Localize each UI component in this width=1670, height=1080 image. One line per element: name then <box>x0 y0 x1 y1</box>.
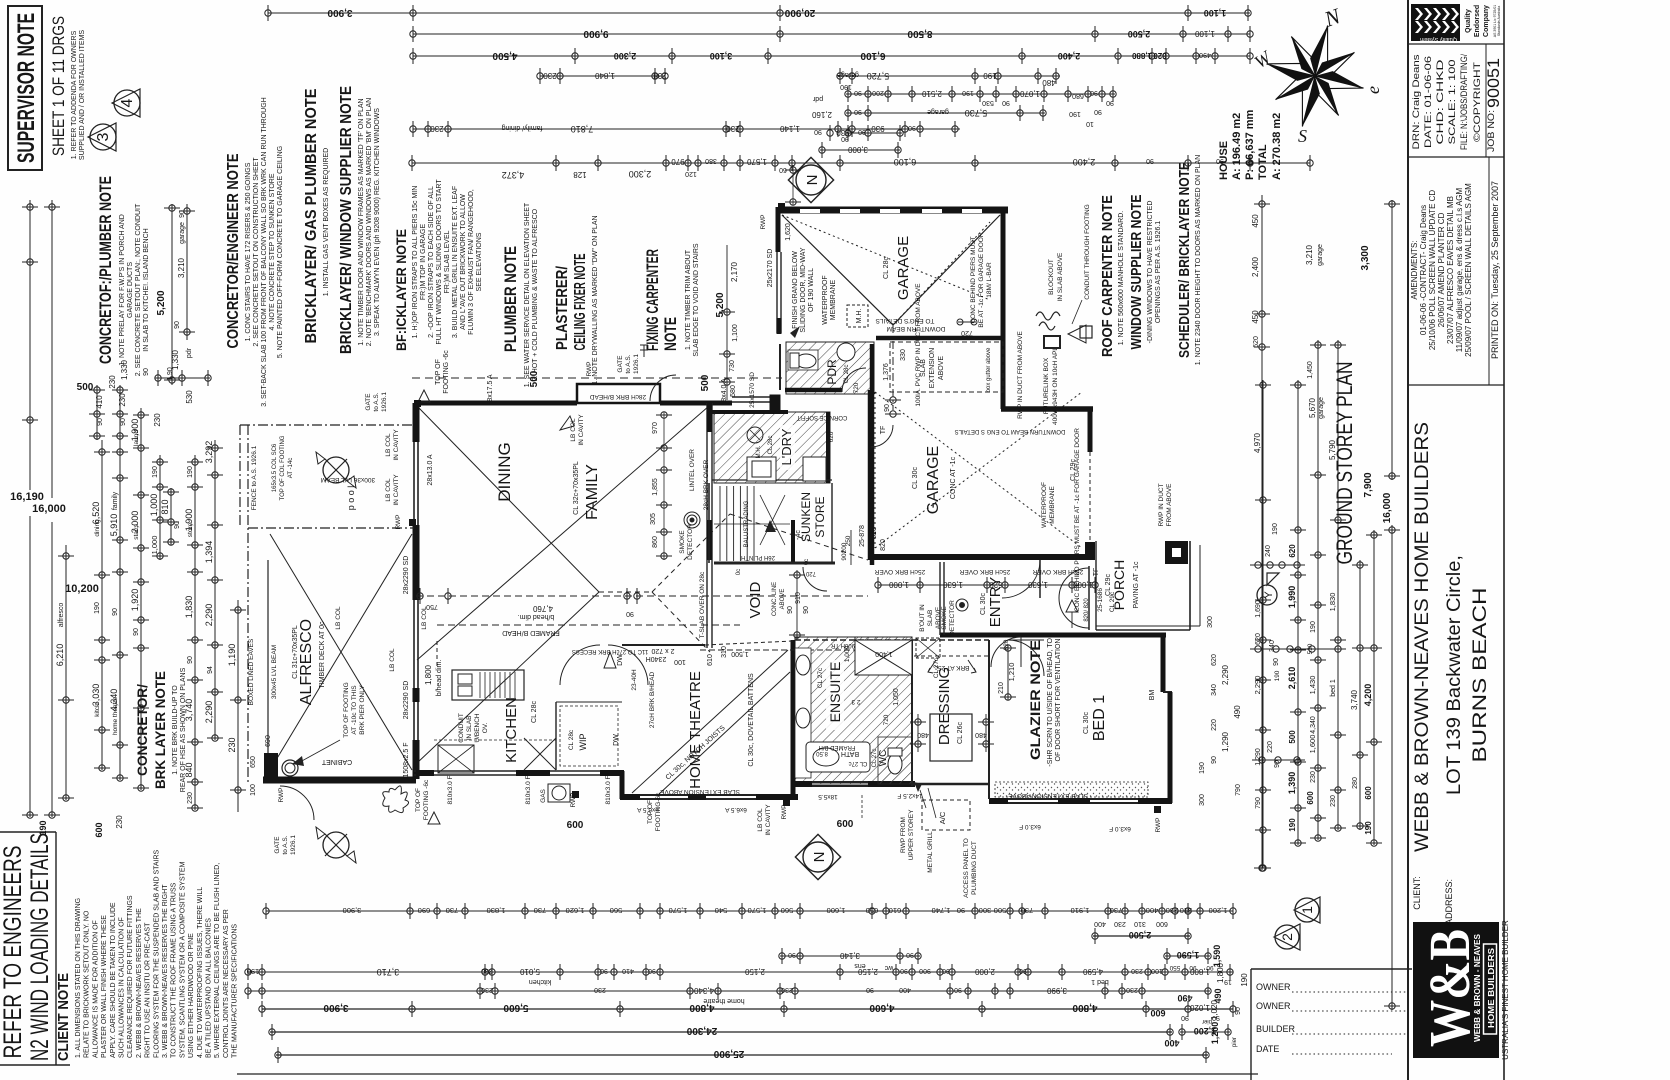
svg-text:-4c: -4c <box>795 530 802 540</box>
svg-text:490: 490 <box>1199 51 1211 58</box>
svg-text:5,670: 5,670 <box>1308 397 1317 418</box>
label: kitchen <box>458 697 538 763</box>
wall: bed1 bottom with windows <box>989 799 1172 803</box>
svg-text:27cH BRK B/HEAD: 27cH BRK B/HEAD <box>649 672 656 729</box>
glazier note pointer dims <box>1000 645 1016 700</box>
svg-text:90: 90 <box>1106 99 1114 106</box>
svg-text:28cH BRK OVER: 28cH BRK OVER <box>703 459 710 510</box>
svg-text:1. H:)OP IRON STRAPS TO ALL PI: 1. H:)OP IRON STRAPS TO ALL PIERS 15c MI… <box>412 186 419 339</box>
svg-text:RWP: RWP <box>781 804 788 819</box>
svg-text:190: 190 <box>1272 523 1279 535</box>
bottom border line <box>237 1073 1258 1075</box>
svg-text:410: 410 <box>95 395 104 409</box>
svg-text:SEE ELEVATIONS: SEE ELEVATIONS <box>476 232 483 291</box>
svg-text:SLAB EXTENSION ABOVE: SLAB EXTENSION ABOVE <box>1007 792 1087 799</box>
svg-text:DETECTOR: DETECTOR <box>949 600 956 636</box>
svg-text:910: 910 <box>795 592 802 604</box>
svg-text:5,730: 5,730 <box>965 108 988 118</box>
svg-text:1,800: 1,800 <box>1189 967 1210 976</box>
note: REFER TO ENGINEERS N2 WIND LOADING DETAILS <box>0 832 70 1065</box>
svg-text:90: 90 <box>97 418 104 426</box>
svg-text:330: 330 <box>900 349 907 361</box>
note: CONCRETOR/BRK LAYER <box>134 667 187 792</box>
svg-text:TO ENG'S DETAILS: TO ENG'S DETAILS <box>875 317 934 324</box>
svg-text:530: 530 <box>185 390 194 404</box>
svg-text:7,810: 7,810 <box>571 124 594 134</box>
label: garage <box>912 446 957 514</box>
svg-text:580: 580 <box>730 385 737 397</box>
svg-text:HOME BUILDERS: HOME BUILDERS <box>1486 948 1496 1028</box>
svg-text:28x17.5 A: 28x17.5 A <box>487 374 494 405</box>
svg-text:LB COL: LB COL <box>757 808 764 832</box>
svg-text:RWP: RWP <box>278 787 285 802</box>
svg-text:2. SEE CONCRETE SETOUT PLAN:,: 2. SEE CONCRETE SETOUT PLAN:, NOTE CONDU… <box>135 203 142 376</box>
svg-text:Quality System: Quality System <box>1420 36 1457 42</box>
svg-text:500: 500 <box>700 374 711 391</box>
note: ROOF CARPENTER <box>1099 195 1125 357</box>
svg-text:1,830: 1,830 <box>1328 593 1337 612</box>
symbol: revision diamond 2 <box>1274 924 1300 950</box>
right dim col C (x1298 bold) <box>1287 380 1306 846</box>
svg-text:family: family <box>112 491 119 510</box>
svg-text:4,800: 4,800 <box>1072 1002 1097 1013</box>
svg-text:2. WEBB & BROWN-NEAVES RESERVE: 2. WEBB & BROWN-NEAVES RESERVES THE <box>136 908 143 1058</box>
svg-text:340: 340 <box>1211 684 1218 696</box>
svg-text:16,190: 16,190 <box>10 491 44 503</box>
svg-text:810x3.0 F: 810x3.0 F <box>525 776 532 805</box>
svg-text:OF DOOR SHORT FOR VENTILATION: OF DOOR SHORT FOR VENTILATION <box>1055 639 1062 762</box>
svg-text:SLAB: SLAB <box>927 610 934 627</box>
svg-text:10: 10 <box>1086 120 1094 127</box>
svg-text:500: 500 <box>529 370 540 387</box>
svg-text:720: 720 <box>883 714 890 725</box>
svg-text:PRINTED ON: Tuesday, 25 Septe: PRINTED ON: Tuesday, 25 September 2007 <box>1490 181 1500 359</box>
svg-text:305: 305 <box>650 513 657 525</box>
svg-text:90: 90 <box>174 521 181 529</box>
svg-text:TOP OF FOOTING: TOP OF FOOTING <box>343 682 350 737</box>
svg-text:RWP: RWP <box>760 214 767 229</box>
svg-text:1. NOTE TIMBER DOOR AND WINDOW: 1. NOTE TIMBER DOOR AND WINDOW FRAMES AS… <box>358 98 365 345</box>
svg-text:1,000: 1,000 <box>888 580 909 589</box>
svg-text:5,600: 5,600 <box>503 1002 528 1013</box>
svg-text:4,340: 4,340 <box>1310 716 1317 734</box>
svg-text:23-40H: 23-40H <box>631 669 638 691</box>
svg-text:24,300: 24,300 <box>686 1025 717 1036</box>
svg-text:790: 790 <box>1255 797 1262 809</box>
svg-text:94: 94 <box>207 666 214 674</box>
left col 141 <box>130 408 149 791</box>
note: CLIENT NOTE <box>55 849 239 1061</box>
svg-text:PAVING AT -1c: PAVING AT -1c <box>1133 561 1140 608</box>
title block: client address <box>1412 422 1491 925</box>
svg-text:store: store <box>187 522 194 537</box>
svg-text:210: 210 <box>998 682 1005 694</box>
svg-text:M.H.: M.H. <box>856 309 863 324</box>
svg-text:540: 540 <box>715 906 728 915</box>
svg-text:690: 690 <box>265 735 272 747</box>
svg-text:1,570: 1,570 <box>669 906 688 915</box>
svg-text:240: 240 <box>1265 545 1272 557</box>
label: porch <box>1105 560 1140 611</box>
svg-text:pier: pier <box>1232 1037 1238 1047</box>
wall: kitchen step down to home theatre <box>620 771 625 799</box>
svg-text:CONC AT -1c: CONC AT -1c <box>950 456 957 499</box>
svg-text:790: 790 <box>1235 784 1242 796</box>
svg-text:CL 26c: CL 26c <box>957 722 964 744</box>
svg-text:1,855: 1,855 <box>652 478 659 496</box>
svg-text:1,90: 1,90 <box>167 367 174 381</box>
wall: garage top block <box>777 207 1008 409</box>
diagonal lines alfresco <box>270 534 412 770</box>
rwp + misc left <box>278 776 612 824</box>
svg-text:410: 410 <box>622 967 634 974</box>
svg-text:USING EITHER HARDWOOD OR PINE: USING EITHER HARDWOOD OR PINE <box>188 933 195 1058</box>
svg-text:HOME THEATRE: HOME THEATRE <box>687 671 704 789</box>
svg-text:128: 128 <box>573 170 587 179</box>
kitchen bench dashed + oven <box>434 740 556 773</box>
svg-text:DW: DW <box>617 654 624 666</box>
svg-text:190: 190 <box>94 602 101 614</box>
svg-text:1926.1: 1926.1 <box>381 392 388 412</box>
diagonal dotted lines main garage <box>875 392 1082 548</box>
svg-text:CL 27c: CL 27c <box>817 667 824 688</box>
fixture: laundry trough/bench <box>747 457 826 481</box>
svg-text:690: 690 <box>418 906 431 915</box>
svg-text:810x3.0 F: 810x3.0 F <box>605 776 612 805</box>
svg-text:220: 220 <box>1211 719 1218 731</box>
top dim row 2 <box>410 26 1253 42</box>
svg-text:1,020: 1,020 <box>1210 999 1219 1020</box>
bottom dim row C <box>245 983 1211 1004</box>
svg-text:FR:)M TOP IN GARAGE: FR:)M TOP IN GARAGE <box>420 224 427 301</box>
svg-text:SYSTEM, SCANTLING SYSTEM OR A: SYSTEM, SCANTLING SYSTEM OR A COMPOSITE … <box>179 861 186 1058</box>
kitchen wip pantry <box>524 702 622 770</box>
svg-text:26H PLINTH: 26H PLINTH <box>741 554 775 560</box>
alfresco col labels <box>272 435 342 629</box>
svg-text:190: 190 <box>1199 762 1206 774</box>
svg-text:1,190: 1,190 <box>227 644 237 667</box>
svg-text:©COPYRIGHT: ©COPYRIGHT <box>1472 61 1482 142</box>
svg-text:190: 190 <box>983 71 997 80</box>
svg-text:dining: dining <box>94 519 101 537</box>
svg-text:5,720: 5,720 <box>867 71 890 81</box>
svg-text:BUILDER: BUILDER <box>1256 1024 1296 1034</box>
svg-text:28x13.0 A: 28x13.0 A <box>427 454 434 485</box>
svg-text:16,000: 16,000 <box>32 503 66 515</box>
svg-text:90: 90 <box>803 606 810 614</box>
svg-text:CL 27c: CL 27c <box>849 760 868 766</box>
svg-text:190: 190 <box>247 967 260 976</box>
svg-text:100: 100 <box>1151 967 1163 974</box>
label: ensuite <box>817 660 844 730</box>
wall: family/void divider <box>707 403 712 648</box>
svg-text:CL 30c: CL 30c <box>912 467 919 489</box>
svg-text:720: 720 <box>805 570 816 576</box>
svg-text:CABINET: CABINET <box>321 758 352 765</box>
svg-text:1,200: 1,200 <box>1210 1022 1220 1045</box>
svg-text:M.H.: M.H. <box>756 445 762 458</box>
svg-text:garage: garage <box>179 222 186 244</box>
svg-text:190: 190 <box>962 89 974 96</box>
svg-text:230: 230 <box>115 815 124 829</box>
svg-text:2. HOT + COLD PLUMBING & WASTE: 2. HOT + COLD PLUMBING & WASTE TO ALFRES… <box>532 208 539 381</box>
svg-text:CONC. LINE: CONC. LINE <box>772 582 778 616</box>
wall: dining left (west) with windows <box>414 403 418 779</box>
svg-text:AMENDMENTS:: AMENDMENTS: <box>1410 240 1419 299</box>
svg-text:5. NOTE PAINTED OFF-FORM CONCR: 5. NOTE PAINTED OFF-FORM CONCRETE TO GAR… <box>277 146 284 358</box>
svg-text:650: 650 <box>866 906 879 915</box>
svg-text:14x2.5 F: 14x2.5 F <box>897 792 922 799</box>
svg-text:100: 100 <box>674 658 686 665</box>
svg-text:L'DRY: L'DRY <box>779 428 794 465</box>
entry dim row <box>875 577 1098 593</box>
svg-text:garage: garage <box>927 108 949 115</box>
top dim row 7 <box>409 155 1313 180</box>
svg-text:2,160: 2,160 <box>811 110 832 119</box>
svg-text:2,300: 2,300 <box>614 51 637 61</box>
svg-text:23/07/07 ALFRESCO EAVES DETA: 23/07/07 ALFRESCO EAVES DETAIL MB <box>1446 196 1455 344</box>
svg-text:90: 90 <box>1235 1007 1242 1015</box>
svg-text:1,000: 1,000 <box>150 536 159 555</box>
svg-text:1,100: 1,100 <box>732 324 739 342</box>
svg-text:RWP: RWP <box>1155 817 1162 832</box>
plumber note dims 5200/3210 <box>156 204 195 385</box>
svg-text:pdr: pdr <box>812 95 823 102</box>
rwp markers <box>409 203 1161 813</box>
top dim row 3 <box>410 48 1253 64</box>
title block: amendments <box>1410 181 1500 359</box>
left dim col 16190 lower <box>22 516 38 818</box>
svg-text:190: 190 <box>1288 818 1297 832</box>
svg-text:860: 860 <box>652 536 659 548</box>
top dim row 5 <box>811 86 1116 141</box>
svg-text:310: 310 <box>1180 906 1193 915</box>
svg-text:CL 30c: CL 30c <box>980 593 987 615</box>
label: entry <box>980 560 1116 694</box>
svg-text:230: 230 <box>118 393 127 407</box>
svg-text:box gutter above: box gutter above <box>986 347 992 392</box>
svg-text:LB COL: LB COL <box>385 478 392 502</box>
fixture: pdr toilet <box>788 350 818 370</box>
svg-text:230: 230 <box>1114 920 1126 927</box>
svg-text:680: 680 <box>1072 92 1084 99</box>
svg-text:Company: Company <box>1483 5 1490 37</box>
svg-text:PLASTERER/: PLASTERER/ <box>554 266 571 350</box>
svg-text:230: 230 <box>481 986 493 993</box>
svg-text:840: 840 <box>184 762 194 777</box>
svg-text:400: 400 <box>1146 906 1159 915</box>
svg-text:MEMBRANE: MEMBRANE <box>1049 486 1056 524</box>
north marker lower <box>795 834 840 879</box>
right dim col D (x1318) <box>1306 340 1326 841</box>
svg-text:620: 620 <box>1211 654 1218 666</box>
top dim row 1 <box>265 5 1251 21</box>
svg-text:600: 600 <box>94 822 104 837</box>
svg-text:1,200: 1,200 <box>1209 906 1228 915</box>
svg-text:1,000: 1,000 <box>1072 580 1093 589</box>
svg-text:25/09/07 POOL / SCREEN WALL: 25/09/07 POOL / SCREEN WALL DETAILS AGM <box>1464 183 1473 357</box>
door arc bed1 <box>1008 640 1044 676</box>
wall: main garage <box>868 390 1095 560</box>
svg-text:SLIDING DOOR, MID-WAY: SLIDING DOOR, MID-WAY <box>800 247 807 333</box>
svg-text:1,450: 1,450 <box>1307 361 1314 379</box>
svg-text:100lA. PVC RWP IN DUCT FROM A: 100lA. PVC RWP IN DUCT FROM ABOVE <box>915 283 922 407</box>
svg-text:ROOF CARPENTER NOTE: ROOF CARPENTER NOTE <box>1099 195 1116 357</box>
svg-text:90: 90 <box>1094 108 1102 115</box>
svg-text:400Wx943H ON 10cH APL: 400Wx943H ON 10cH APL <box>1052 347 1059 425</box>
svg-text:1,050: 1,050 <box>893 688 900 706</box>
svg-text:CL 31c+70x35PL: CL 31c+70x35PL <box>292 625 299 679</box>
title block frame <box>1408 0 1504 1080</box>
svg-text:620: 620 <box>1153 51 1167 60</box>
svg-text:TOP OF: TOP OF <box>647 800 654 824</box>
svg-text:B'OUT IN: B'OUT IN <box>919 604 926 632</box>
svg-text:230: 230 <box>1166 906 1179 915</box>
svg-text:300: 300 <box>1199 794 1206 806</box>
svg-text:1,630: 1,630 <box>942 580 963 589</box>
svg-text:0c: 0c <box>736 569 742 575</box>
svg-text:1,100: 1,100 <box>1194 29 1215 38</box>
svg-text:BE AT -1c FOR GARAGE DOOR: BE AT -1c FOR GARAGE DOOR <box>978 232 985 327</box>
svg-text:PLUMBING DUCT: PLUMBING DUCT <box>971 841 978 895</box>
blockout symbols <box>1036 204 1092 348</box>
svg-text:1,830: 1,830 <box>184 596 194 619</box>
svg-text:1: 1 <box>1299 906 1315 914</box>
svg-text:90: 90 <box>187 656 194 664</box>
svg-text:3,710: 3,710 <box>377 967 400 977</box>
svg-text:1,390: 1,390 <box>1287 772 1297 795</box>
note: WINDOW SUPPLIER <box>1128 195 1162 350</box>
left dim col 16190 upper <box>22 200 38 490</box>
svg-text:600: 600 <box>1364 786 1373 800</box>
svg-text:SCHEDULER/ BRICKLAYER NOTE: SCHEDULER/ BRICKLAYER NOTE <box>1176 162 1193 358</box>
svg-text:SCALE: 1: 100: SCALE: 1: 100 <box>1447 60 1457 145</box>
svg-text:18x5.5: 18x5.5 <box>818 793 838 800</box>
svg-text:1926.1: 1926.1 <box>633 354 640 374</box>
svg-text:N: N <box>804 175 821 186</box>
svg-text:PDR: PDR <box>825 359 839 385</box>
svg-text:IN CAVITY: IN CAVITY <box>765 804 772 836</box>
svg-text:0c: 0c <box>804 559 810 565</box>
svg-text:3. SET-BACK SLAB 100 FROM FRON: 3. SET-BACK SLAB 100 FROM FRONT OF BALCO… <box>261 97 268 407</box>
svg-text:1,920: 1,920 <box>130 589 140 612</box>
hatch: powder room <box>786 342 874 394</box>
diagonal lines home theatre <box>632 650 790 795</box>
svg-text:90: 90 <box>179 210 186 218</box>
svg-text:25cH BRK OVER: 25cH BRK OVER <box>959 568 1010 575</box>
svg-text:90: 90 <box>1211 756 1218 764</box>
svg-text:3. SPEAK TO ALWYN EVEN (ph 920: 3. SPEAK TO ALWYN EVEN (ph 9208 9000) RE… <box>374 108 381 336</box>
svg-text:90: 90 <box>1273 658 1280 666</box>
diagonal lines garage top block <box>782 215 1000 410</box>
svg-text:DATE: DATE <box>1256 1044 1279 1054</box>
svg-text:CEILING FIXER NOTE: CEILING FIXER NOTE <box>572 253 589 350</box>
svg-text:BM: BM <box>1149 690 1156 701</box>
svg-text:1,800: 1,800 <box>424 664 433 685</box>
left col 102 <box>91 440 110 771</box>
svg-text:90: 90 <box>1002 99 1010 106</box>
svg-text:1,500: 1,500 <box>731 650 749 657</box>
svg-text:GARAGE: GARAGE <box>925 446 942 514</box>
svg-text:2,290: 2,290 <box>204 701 214 724</box>
svg-text:CONC BEHIND PIERS MUST: CONC BEHIND PIERS MUST <box>970 236 977 323</box>
svg-text:CHD: CHKD: CHD: CHKD <box>1435 59 1445 145</box>
left col 195 <box>184 455 203 811</box>
svg-text:CL 32c+70x35PL: CL 32c+70x35PL <box>573 461 580 515</box>
lobby labels <box>715 165 801 408</box>
fixture: wc toilet <box>872 737 912 784</box>
svg-text:family/ dining: family/ dining <box>501 124 542 131</box>
svg-text:DW: DW <box>613 734 620 746</box>
svg-text:4,760: 4,760 <box>532 604 553 613</box>
svg-text:90: 90 <box>1181 1014 1189 1021</box>
svg-text:CL 30c, DOVETAIL BATTENS: CL 30c, DOVETAIL BATTENS <box>748 673 755 767</box>
svg-text:2,300: 2,300 <box>629 169 652 179</box>
hatch: laundry <box>714 412 830 483</box>
svg-text:2 x 720: 2 x 720 <box>651 647 674 654</box>
svg-text:4. NOTE CONCRETE STEP TO SUNKE: 4. NOTE CONCRETE STEP TO SUNKEN STORE <box>269 173 276 330</box>
svg-text:6x3.0 F: 6x3.0 F <box>1109 825 1131 832</box>
svg-text:1,100: 1,100 <box>1204 8 1227 18</box>
signature box <box>1210 945 1412 1080</box>
svg-text:480: 480 <box>917 731 929 738</box>
svg-text:230: 230 <box>227 737 237 752</box>
svg-text:490: 490 <box>1233 705 1242 719</box>
svg-text:3,900: 3,900 <box>327 7 352 18</box>
svg-text:90: 90 <box>133 628 140 636</box>
svg-text:GATE: GATE <box>274 836 281 854</box>
svg-text:DINING: DINING <box>495 442 514 502</box>
svg-text:230: 230 <box>108 375 117 389</box>
svg-text:TO CONSTRUCT THE ROOF FRAME US: TO CONSTRUCT THE ROOF FRAME USING A TRUS… <box>171 882 178 1058</box>
svg-text:FRAMED B/H: FRAMED B/H <box>818 744 855 750</box>
svg-text:10,200: 10,200 <box>65 583 99 595</box>
fixture: pdr basin <box>837 343 855 361</box>
svg-text:CONCRETOR/ENGINEER NOTE: CONCRETOR/ENGINEER NOTE <box>225 153 242 348</box>
svg-text:190: 190 <box>840 83 852 90</box>
svg-text:NOTE: NOTE <box>661 317 680 351</box>
svg-text:530: 530 <box>1307 643 1314 654</box>
svg-text:ABOVE: ABOVE <box>780 589 786 610</box>
svg-text:WATERPROOF: WATERPROOF <box>822 275 829 324</box>
svg-text:FINISH GRANO BELOW: FINISH GRANO BELOW <box>792 251 799 329</box>
svg-text:ENTRY: ENTRY <box>987 577 1004 628</box>
svg-text:3,100: 3,100 <box>710 51 733 61</box>
svg-text:190: 190 <box>38 820 48 835</box>
top wall labels <box>418 350 728 617</box>
svg-text:120: 120 <box>685 170 697 177</box>
svg-text:RWP IN DUCT FROM ABOVE: RWP IN DUCT FROM ABOVE <box>1017 330 1024 418</box>
svg-text:28x2290 SD: 28x2290 SD <box>403 681 410 720</box>
svg-text:ABOVE: ABOVE <box>938 356 945 380</box>
svg-text:230: 230 <box>1330 795 1337 807</box>
symbol: revision triangle-circle 4 <box>112 89 140 117</box>
svg-text:90: 90 <box>957 906 965 915</box>
svg-text:300: 300 <box>1207 616 1214 628</box>
svg-text:4,590: 4,590 <box>1082 967 1103 976</box>
svg-text:FLOORING SYSTEM FOR THE SUSPEN: FLOORING SYSTEM FOR THE SUSPENDED SLAB A… <box>153 849 160 1058</box>
svg-text:4,500: 4,500 <box>492 50 517 61</box>
svg-text:1,330: 1,330 <box>171 349 180 370</box>
svg-text:230: 230 <box>187 792 194 804</box>
svg-text:190: 190 <box>1274 670 1281 681</box>
svg-text:500: 500 <box>994 906 1007 915</box>
svg-text:WEBB & BROWN-NEAVES HOME BUILD: WEBB & BROWN-NEAVES HOME BUILDERS <box>1412 422 1433 852</box>
alfresco footing note <box>292 682 366 766</box>
svg-text:400: 400 <box>899 986 911 993</box>
svg-text:230: 230 <box>594 986 606 993</box>
svg-text:1,600: 1,600 <box>1308 735 1317 754</box>
